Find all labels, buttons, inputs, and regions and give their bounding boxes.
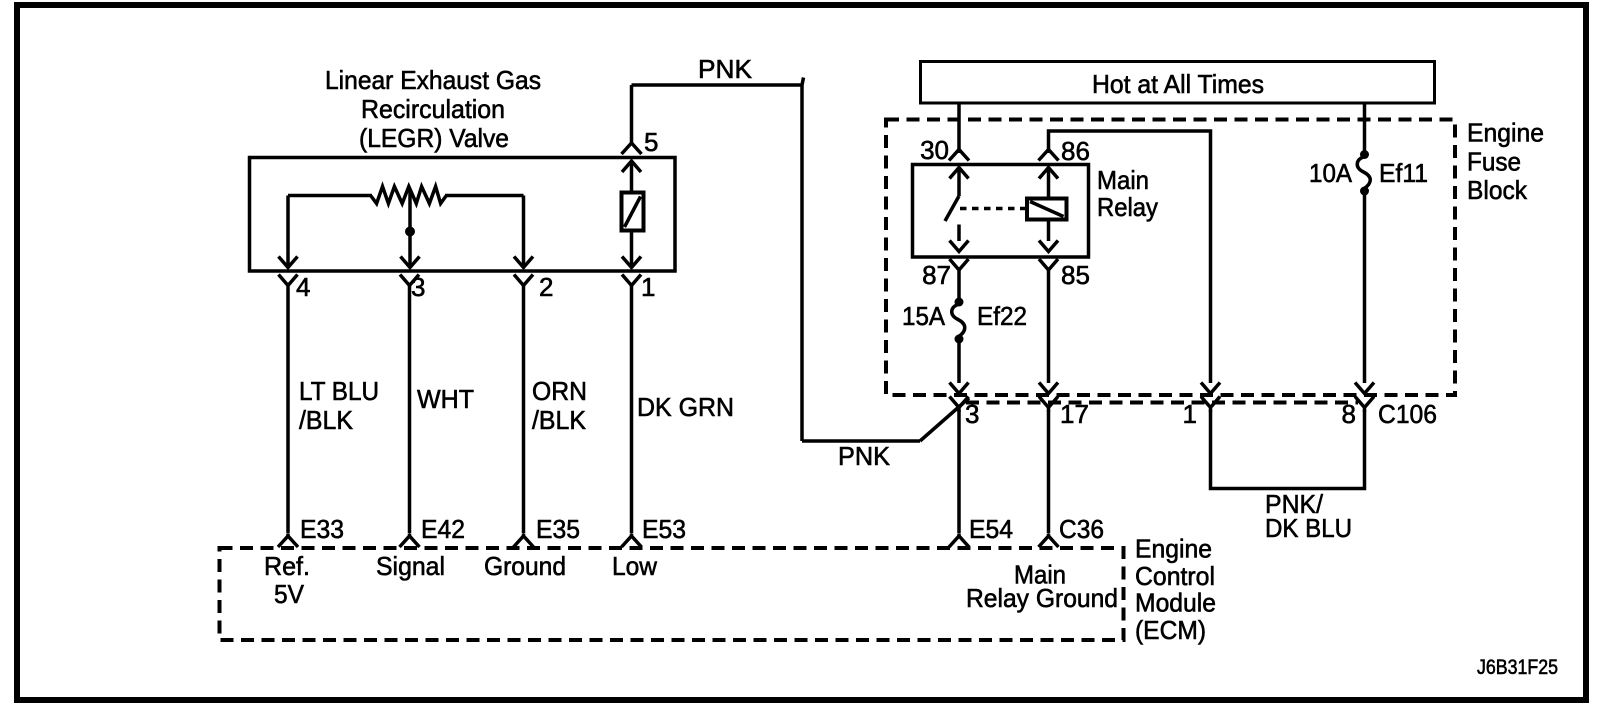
svg-text:C36: C36 [1059,514,1104,544]
svg-text:LT BLU: LT BLU [299,376,379,406]
svg-text:86: 86 [1061,136,1090,166]
wire hot to relay pin 30 [957,103,961,153]
pin 1 C106 connector [1201,397,1220,413]
relay coil arrow down pin 85 [1039,220,1058,252]
pin 3 connector [400,275,419,534]
svg-text:8: 8 [1342,399,1356,429]
svg-text:DK BLU: DK BLU [1265,513,1352,543]
pin 17 C106 connector [1039,397,1058,534]
svg-text:PNK: PNK [698,54,753,84]
wire PNK vertical [800,85,804,441]
wire wiper leg + arrow pin 3 [401,190,420,268]
wire PNK/DK BLU loop [1211,410,1365,489]
svg-text:/BLK: /BLK [299,405,354,435]
pin C36 connector [1039,534,1059,547]
svg-text:Module: Module [1135,588,1216,618]
svg-text:Signal: Signal [376,551,445,581]
relay switch blade [945,196,959,221]
pin 8 C106 connector [1355,397,1374,413]
svg-text:E35: E35 [536,514,580,544]
svg-text:WHT: WHT [417,384,474,414]
svg-text:(LEGR) Valve: (LEGR) Valve [359,123,509,153]
svg-text:E54: E54 [969,514,1013,544]
relay pin 85 connector [1039,259,1058,383]
wire Ef22 down + arrow pin 3 [950,343,969,394]
relay pin 30 connector [949,149,969,161]
relay pin 86 connector [1039,149,1059,161]
svg-text:Engine: Engine [1135,534,1212,564]
svg-text:Recirculation: Recirculation [361,94,505,124]
svg-text:Low: Low [612,551,657,581]
svg-text:Relay Ground: Relay Ground [966,583,1118,613]
wire resistor right [445,194,524,198]
svg-text:E53: E53 [642,514,686,544]
wire PNK top horizontal [632,83,803,87]
wire sensor 5V leg + arrow pin 4 [279,196,298,268]
svg-text:Ground: Ground [484,551,566,581]
svg-text:Hot at All Times: Hot at All Times [1092,69,1264,99]
svg-text:Block: Block [1467,175,1528,205]
wire Ef11 down + arrow pin 8 [1355,195,1374,394]
svg-text:C106: C106 [1378,399,1437,429]
svg-text:Relay: Relay [1097,192,1158,222]
pin 3 C106 connector [950,397,969,534]
svg-text:1: 1 [641,272,655,302]
relay coil [1027,199,1067,220]
junction tick [802,78,804,86]
pin E53 connector [622,534,642,547]
fuse Ef22 15A [952,298,965,344]
resistor R LEGR position sensor [371,187,446,204]
Engine Fuse Block dashed box [886,120,1455,396]
svg-text:E42: E42 [421,514,465,544]
relay pin 87 connector [950,259,969,302]
svg-text:15A: 15A [902,301,946,331]
wire PNK diagonal to pin 3 [920,398,969,441]
svg-text:Engine: Engine [1467,118,1544,148]
svg-text:(ECM): (ECM) [1135,615,1206,645]
solenoid coil L1 LEGR valve [622,193,644,231]
pin 2 connector [514,275,533,534]
svg-text:87: 87 [922,260,951,290]
svg-text:85: 85 [1061,260,1090,290]
Hot at All Times box [921,62,1435,104]
pin 4 connector [279,275,298,534]
relay box U2 Main Relay [913,165,1089,258]
svg-text:Linear Exhaust Gas: Linear Exhaust Gas [325,65,541,95]
wire pin 86 loop [1049,131,1211,383]
solenoid arrow up to pin 5 [622,161,641,193]
svg-text:30: 30 [920,135,949,165]
arrow wire into C106 pin 1 [1201,383,1220,394]
pin E54 connector [949,534,969,547]
pin E42 connector [400,534,420,547]
ECM dashed box [220,548,1124,640]
wire PNK bottom horizontal [802,439,920,443]
wiper junction dot [405,227,415,237]
arrow wire 85 to pin 17 [1039,383,1058,394]
connector C106 dashed line [966,401,1358,405]
wire resistor left [288,194,372,198]
svg-text:3: 3 [411,272,425,302]
svg-text:J6B31F25: J6B31F25 [1477,656,1558,679]
svg-text:Control: Control [1135,561,1215,591]
svg-text:1: 1 [1183,399,1197,429]
pin E33 connector [278,534,298,547]
svg-text:ORN: ORN [532,376,587,406]
svg-text:3: 3 [965,399,979,429]
svg-text:17: 17 [1060,399,1089,429]
svg-text:10A: 10A [1309,158,1353,188]
svg-text:5: 5 [644,127,658,157]
svg-text:E33: E33 [300,514,344,544]
relay actuator dashed link [960,207,1026,211]
svg-text:Ef22: Ef22 [977,301,1027,331]
wire hot to fuse Ef11 [1363,103,1367,151]
LEGR valve box U1 [250,158,676,272]
pin 1 connector [622,275,641,534]
wire sensor ground leg + arrow pin 2 [514,196,533,268]
relay switch arrow down pin 87 [950,225,969,252]
fuse Ef11 10A [1357,150,1370,196]
svg-text:2: 2 [539,272,553,302]
svg-text:/BLK: /BLK [532,405,587,435]
pin E35 connector [514,534,534,547]
svg-text:Ef11: Ef11 [1379,158,1428,188]
svg-text:5V: 5V [274,579,305,609]
svg-text:PNK: PNK [838,441,891,471]
svg-text:Main: Main [1097,165,1149,195]
svg-text:Fuse: Fuse [1467,147,1521,177]
relay switch arrow up pin 30 [950,168,969,197]
svg-text:DK GRN: DK GRN [637,392,734,422]
svg-text:4: 4 [296,272,310,302]
svg-text:Ref.: Ref. [264,551,310,581]
relay coil arrow up pin 86 [1039,168,1058,199]
solenoid wire down + arrow pin 1 [622,231,641,268]
pin 5 connector [622,85,642,154]
